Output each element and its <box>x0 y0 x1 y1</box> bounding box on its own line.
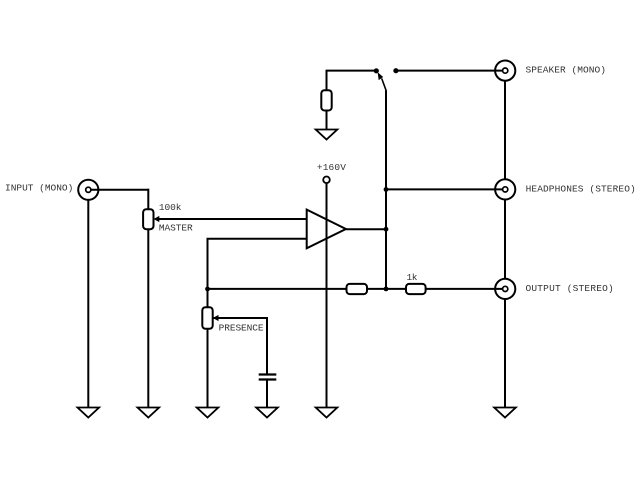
wire: master wiper to op-amp input <box>158 218 307 220</box>
wire: top row to switch contact <box>326 70 377 72</box>
svg-text:1k: 1k <box>407 272 418 283</box>
switch SW1 lever <box>382 79 387 92</box>
resistor R2 (speaker load) vertical <box>321 90 331 110</box>
ground (input) <box>78 408 100 418</box>
svg-text:HEADPHONES (STEREO): HEADPHONES (STEREO) <box>526 183 636 194</box>
svg-text:OUTPUT (STEREO): OUTPUT (STEREO) <box>526 283 614 294</box>
svg-text:100k: 100k <box>159 202 182 213</box>
ground (speaker resistor) <box>316 130 338 140</box>
svg-text:SPEAKER (MONO): SPEAKER (MONO) <box>526 65 606 76</box>
resistor R3 (feedback) horizontal <box>347 284 368 294</box>
wire: headphones jack to output jack <box>504 200 506 279</box>
potentiometer MASTER body <box>143 209 153 229</box>
svg-text:+160V: +160V <box>317 162 346 173</box>
junction: bus/feedback row <box>384 287 389 292</box>
ground (presence pot) <box>197 408 219 418</box>
junction: bus/op-amp output <box>384 227 389 232</box>
wire: master pot bottom to ground <box>147 229 149 408</box>
wire: op-amp lower input to feedback node <box>208 239 307 289</box>
wire: top corner to resistor R2 <box>326 71 328 91</box>
wire: resistor R2 to ground <box>326 111 328 131</box>
switch SW1 contact dot left <box>374 68 379 73</box>
wire: presence pot bottom to ground <box>207 329 209 409</box>
connector OUTPUT (STEREO) <box>495 279 515 299</box>
resistor R4 1k horizontal <box>406 284 426 294</box>
wire: speaker jack to headphones jack <box>504 81 506 180</box>
wire: 1k to output jack <box>426 288 505 290</box>
wire: +160V supply through op-amp to ground <box>326 183 328 408</box>
ground (capacitor) <box>256 408 278 418</box>
wire: capacitor to ground <box>266 380 268 409</box>
wire: input jack sleeve to ground <box>87 200 89 409</box>
wire: op-amp output <box>346 228 386 230</box>
wire: output jack to ground <box>504 299 506 409</box>
op-amp U1 <box>307 210 346 249</box>
svg-text:PRESENCE: PRESENCE <box>219 322 264 333</box>
junction: bus/headphones <box>384 187 389 192</box>
switch SW1 contact dot right <box>393 68 398 73</box>
svg-text:INPUT (MONO): INPUT (MONO) <box>5 182 73 193</box>
ground (master pot) <box>138 408 160 418</box>
wire: feedback row left <box>208 288 347 290</box>
wire: output bus vertical <box>385 91 387 289</box>
connector SPEAKER (MONO) <box>495 61 515 81</box>
ground (output jack) <box>494 408 516 418</box>
wire: switch to speaker jack <box>396 70 505 72</box>
junction node A <box>205 287 210 292</box>
wire: between resistors <box>367 288 406 290</box>
connector HEADPHONES (STEREO) <box>495 179 515 199</box>
wire: +160V line over op-amp <box>326 210 328 248</box>
connector INPUT (MONO) <box>78 180 98 200</box>
ground (op-amp supply) <box>316 408 338 418</box>
potentiometer MASTER wiper arrow <box>154 216 160 222</box>
wire: presence wiper to capacitor <box>213 318 267 375</box>
svg-text:MASTER: MASTER <box>159 222 193 233</box>
capacitor C1 <box>259 375 277 380</box>
wire: input jack to master pot top <box>88 189 148 191</box>
terminal +160V <box>323 177 330 184</box>
potentiometer PRESENCE wiper arrow <box>213 315 219 321</box>
potentiometer PRESENCE body <box>202 307 212 329</box>
wire: bus to headphones jack <box>386 188 505 190</box>
wire: node A to presence pot top <box>207 289 209 307</box>
